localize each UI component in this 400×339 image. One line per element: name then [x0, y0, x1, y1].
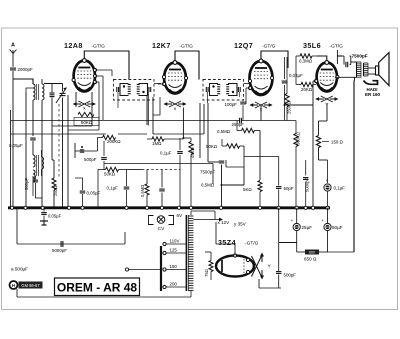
svg-text:150: 150	[170, 264, 178, 269]
speaker magnet	[364, 81, 378, 85]
resistor R3 50K	[98, 167, 127, 208]
label V5 35Z4-GT/G	[218, 238, 259, 247]
svg-text:0,05µF: 0,05µF	[48, 214, 62, 219]
capacitor C8 100pF	[225, 100, 246, 121]
resistor R16 650ohm	[297, 250, 328, 262]
ground bus	[8, 206, 330, 209]
label V2 12K7-GT/G	[152, 41, 193, 50]
wire rectifier top	[216, 222, 297, 256]
wire column x200	[200, 103, 208, 162]
svg-text:12K7: 12K7	[152, 41, 171, 50]
heater V4 arrows Y	[315, 96, 338, 108]
svg-text:0,5MΩ: 0,5MΩ	[217, 129, 231, 134]
transformer T3 output	[335, 62, 368, 81]
logo GM 56-67	[10, 281, 43, 289]
wire V4 top rail	[317, 50, 342, 64]
heater V3 arrows x	[250, 102, 273, 113]
wire AVC rail y134	[11, 133, 205, 135]
heater V2 arrows x	[164, 101, 187, 112]
resistor R13 20K	[296, 56, 316, 92]
antenna A	[10, 43, 17, 58]
tube V5 35Z4	[216, 254, 254, 277]
resistor R1 50K	[74, 112, 99, 125]
IF transformer T1 dashed can	[114, 80, 162, 126]
resistor R7 0,5M	[217, 128, 260, 180]
resistor R 250ohm	[52, 126, 58, 208]
svg-text:20KΩ: 20KΩ	[301, 87, 313, 92]
title box OREM - AR 48	[55, 278, 140, 296]
heater V5 arrows Y	[252, 253, 272, 280]
capacitor C 5000pF mains	[52, 241, 67, 253]
svg-text:0,1µF: 0,1µF	[107, 186, 119, 191]
inductor L2 oscillator coil	[33, 150, 44, 182]
label V4 35L6-GT/G	[303, 41, 343, 50]
svg-text:+: +	[321, 218, 324, 223]
svg-text:50KΩ: 50KΩ	[206, 144, 218, 149]
svg-text:2000pF: 2000pF	[18, 67, 34, 72]
svg-text:OREM - AR 48: OREM - AR 48	[57, 280, 138, 294]
label a 500uF	[11, 267, 28, 272]
svg-text:0,05µF: 0,05µF	[87, 191, 101, 196]
svg-text:50pF: 50pF	[284, 186, 294, 191]
resistor R4 1M	[147, 125, 183, 146]
wire rail y178	[0, 0, 1, 1]
svg-text:-GT/G: -GT/G	[330, 44, 344, 50]
wire V2 pin leads	[147, 84, 184, 139]
svg-text:650 Ω: 650 Ω	[304, 257, 317, 262]
resistor R14 150ohm	[316, 104, 343, 161]
svg-text:500KΩ: 500KΩ	[296, 132, 301, 145]
svg-text:ER 160: ER 160	[365, 92, 381, 97]
capacitor C3 500pF	[84, 141, 107, 170]
svg-text:7500pF: 7500pF	[352, 54, 368, 59]
svg-text:0,5MΩ: 0,5MΩ	[140, 185, 145, 197]
wire V1 grid cap	[84, 51, 129, 80]
tube V3 12Q7	[248, 59, 273, 95]
svg-text:GM 56-67: GM 56-67	[21, 283, 40, 288]
svg-text:5KΩ: 5KΩ	[243, 187, 252, 192]
heater V1 arrows x	[73, 101, 96, 112]
resistor R8 50K	[206, 139, 244, 149]
inductor L1 antenna coil	[13, 79, 44, 208]
svg-text:500pF: 500pF	[284, 273, 297, 278]
wire V2 grid cap	[175, 51, 199, 80]
svg-text:0,05µF: 0,05µF	[9, 143, 23, 148]
capacitor C10 25uF electrolytic	[291, 208, 313, 252]
svg-text:-GT/G: -GT/G	[245, 241, 259, 247]
capacitor C 0,05uF ground	[41, 208, 61, 221]
wire rail y167 V3	[226, 160, 244, 167]
wire below-bus run	[17, 208, 125, 244]
wire rail y200	[0, 0, 1, 1]
svg-text:200: 200	[170, 282, 178, 287]
svg-text:y 35V: y 35V	[234, 222, 247, 227]
svg-text:6V: 6V	[177, 213, 184, 218]
wire V3 bottom leads	[237, 88, 261, 131]
resistor R11 5K	[243, 167, 262, 208]
svg-text:12Q7: 12Q7	[234, 41, 253, 50]
resistor R10 500K	[294, 121, 301, 208]
capacitor C5 0,1uF	[107, 170, 130, 208]
svg-text:50KΩ: 50KΩ	[104, 172, 116, 177]
capacitor tuning gang C-V1	[44, 84, 67, 127]
wire V1 pin leads	[68, 70, 112, 208]
svg-text:0,1µF: 0,1µF	[160, 151, 172, 156]
resistor R2 200K	[98, 135, 122, 151]
svg-text:100pF: 100pF	[225, 102, 238, 107]
lamp CV pilot	[149, 216, 174, 233]
wire rail y126-128	[52, 126, 99, 130]
capacitor C2 0,05uF	[9, 138, 36, 148]
capacitor 2000pF antenna	[10, 67, 33, 72]
resistor R12 0,3M	[296, 54, 317, 64]
capacitor C6 0,1uF	[160, 138, 183, 208]
svg-text:35Z4: 35Z4	[218, 238, 236, 247]
svg-text:110V: 110V	[170, 239, 180, 244]
wire heater chain	[177, 211, 247, 227]
capacitor C 500pF rect	[259, 208, 296, 288]
wire rail y156 V3	[244, 146, 279, 167]
svg-text:25µF: 25µF	[302, 225, 313, 230]
tube V1 12A8	[72, 59, 97, 92]
resistor R6 0,5M	[201, 183, 244, 188]
wire left column 1	[26, 88, 33, 208]
svg-text:600: 600	[309, 251, 315, 255]
resistor R9 250K	[285, 57, 292, 121]
tube V4 35L6	[314, 61, 339, 92]
svg-text:A: A	[11, 43, 15, 49]
wire V4 drops	[313, 81, 316, 208]
tube V2 12K7	[162, 61, 187, 94]
svg-text:+: +	[291, 218, 294, 223]
svg-text:150 Ω: 150 Ω	[331, 140, 344, 145]
label speaker HADI ER 160	[365, 87, 381, 97]
speaker LS	[368, 53, 389, 86]
IF transformer T2 dashed can	[203, 80, 250, 104]
svg-text:500pF: 500pF	[84, 157, 97, 162]
wire rail y163	[104, 164, 213, 185]
label V3 12Q7-GT/G	[234, 41, 276, 50]
svg-text:-GT/G: -GT/G	[180, 44, 194, 50]
capacitor C 5000pF	[303, 160, 310, 208]
svg-text:x 12V: x 12V	[218, 220, 231, 225]
capacitor C9 0,1uF electrolytic	[324, 160, 345, 208]
ground chassis	[40, 221, 48, 225]
svg-text:0,1µF: 0,1µF	[334, 186, 346, 191]
svg-text:H: H	[12, 283, 15, 288]
svg-text:1MΩ: 1MΩ	[152, 141, 162, 146]
wire osc gang dashed link	[58, 104, 60, 178]
capacitor trimmer	[75, 143, 98, 158]
capacitor C 250pF	[232, 118, 245, 127]
wire volume control	[127, 170, 181, 208]
svg-text:5000pF: 5000pF	[52, 248, 67, 253]
svg-text:12A8: 12A8	[64, 41, 83, 50]
wire rail y120	[11, 110, 297, 208]
svg-text:35L6: 35L6	[303, 41, 321, 50]
svg-text:-GT/G: -GT/G	[92, 44, 106, 50]
capacitor C 0,02uF	[282, 57, 303, 121]
svg-text:75Ω: 75Ω	[204, 269, 209, 277]
mains plug bar	[160, 246, 162, 291]
resistor R5 45K	[183, 138, 195, 208]
svg-text:250pF: 250pF	[232, 122, 245, 127]
svg-text:-GT/G: -GT/G	[262, 44, 276, 50]
capacitor C 50pF	[276, 157, 294, 208]
bus junction nodes	[10, 206, 329, 209]
svg-text:CV: CV	[158, 226, 165, 232]
transformer T4 power	[186, 211, 193, 297]
mains taps	[163, 239, 187, 289]
resistor R15 75ohm	[204, 252, 216, 280]
label V1 12A8-GT/G	[64, 41, 105, 50]
wire B+ riser	[328, 81, 355, 253]
wire antenna lead	[12, 57, 14, 208]
wire left stub	[33, 104, 63, 208]
wire screen rail y105	[284, 104, 314, 106]
capacitor C7 7500pF	[200, 161, 224, 208]
svg-text:200KΩ: 200KΩ	[107, 139, 121, 144]
wire V3 grid cap	[261, 51, 288, 68]
capacitor C 7500pF output	[337, 54, 367, 68]
svg-text:500pF: 500pF	[24, 178, 29, 190]
svg-text:a 500µF: a 500µF	[11, 267, 28, 272]
capacitor C4 0,05uF	[75, 178, 101, 208]
svg-text:0,3MΩ: 0,3MΩ	[299, 59, 313, 64]
svg-text:50µF: 50µF	[332, 225, 343, 230]
capacitor C11 50uF electrolytic	[321, 208, 343, 252]
capacitor padder 500pF	[24, 176, 42, 198]
svg-text:125: 125	[170, 248, 178, 253]
wire mains bottom	[17, 268, 191, 297]
